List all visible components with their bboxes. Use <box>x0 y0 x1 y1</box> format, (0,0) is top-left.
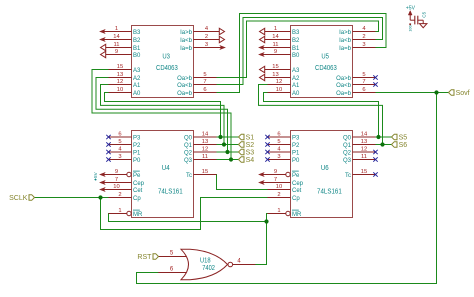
svg-text:CD4063: CD4063 <box>315 65 337 72</box>
svg-text:+5V: +5V <box>406 5 416 11</box>
svg-text:11: 11 <box>202 154 208 160</box>
svg-text:S3: S3 <box>246 149 255 156</box>
svg-text:2: 2 <box>205 34 208 40</box>
svg-text:Ia<b: Ia<b <box>339 38 352 44</box>
svg-text:RST: RST <box>137 254 152 261</box>
svg-text:10: 10 <box>276 184 282 190</box>
svg-text:S5: S5 <box>399 134 408 141</box>
svg-text:S1: S1 <box>246 134 255 141</box>
svg-text:Q2: Q2 <box>343 150 352 156</box>
svg-text:10: 10 <box>117 87 123 93</box>
svg-text:A0: A0 <box>133 91 141 97</box>
svg-text:1: 1 <box>274 26 277 32</box>
svg-text:P2: P2 <box>133 143 141 149</box>
svg-text:14: 14 <box>361 131 368 137</box>
svg-text:Oa>b: Oa>b <box>336 76 352 82</box>
svg-text:14: 14 <box>113 34 120 40</box>
svg-text:Q1: Q1 <box>343 143 352 149</box>
svg-text:13: 13 <box>361 139 367 145</box>
svg-text:9: 9 <box>115 169 118 175</box>
svg-text:P2: P2 <box>292 143 300 149</box>
svg-text:6: 6 <box>118 131 121 137</box>
svg-text:5: 5 <box>362 72 365 78</box>
svg-text:10: 10 <box>276 87 282 93</box>
svg-text:Oa=b: Oa=b <box>177 91 193 97</box>
svg-text:Q0: Q0 <box>343 135 352 141</box>
svg-text:15: 15 <box>117 64 123 70</box>
svg-text:Pe: Pe <box>133 173 141 179</box>
svg-text:Q2: Q2 <box>184 150 193 156</box>
svg-text:15: 15 <box>272 64 278 70</box>
svg-text:12: 12 <box>202 146 208 152</box>
svg-text:12: 12 <box>276 79 282 85</box>
svg-text:15: 15 <box>202 169 208 175</box>
svg-text:A2: A2 <box>292 76 300 82</box>
svg-text:15: 15 <box>361 169 367 175</box>
svg-text:B0: B0 <box>133 53 141 59</box>
svg-text:7: 7 <box>115 177 118 183</box>
svg-text:S6: S6 <box>399 142 408 149</box>
svg-text:11: 11 <box>361 154 367 160</box>
svg-text:74LS161: 74LS161 <box>158 189 183 196</box>
svg-text:11: 11 <box>113 42 119 48</box>
svg-text:U5: U5 <box>321 53 329 60</box>
svg-text:P3: P3 <box>292 135 300 141</box>
svg-text:6: 6 <box>362 87 365 93</box>
svg-text:U6: U6 <box>321 165 329 172</box>
svg-text:12: 12 <box>361 146 367 152</box>
svg-text:9: 9 <box>274 49 277 55</box>
svg-text:MR: MR <box>133 212 143 218</box>
svg-text:Oa=b: Oa=b <box>336 91 352 97</box>
svg-text:Oa<b: Oa<b <box>336 83 352 89</box>
svg-text:P0: P0 <box>133 158 141 164</box>
svg-text:1: 1 <box>277 208 280 214</box>
svg-text:3: 3 <box>277 154 280 160</box>
svg-text:Ia=b: Ia=b <box>180 46 193 52</box>
svg-text:9: 9 <box>274 169 277 175</box>
svg-text:S2: S2 <box>246 142 255 149</box>
svg-text:Oa>b: Oa>b <box>177 76 193 82</box>
svg-text:6: 6 <box>203 87 206 93</box>
svg-text:A2: A2 <box>133 76 141 82</box>
svg-text:7: 7 <box>362 79 365 85</box>
svg-text:Oa<b: Oa<b <box>177 83 193 89</box>
svg-text:Cep: Cep <box>133 181 145 187</box>
svg-text:B1: B1 <box>292 46 300 52</box>
svg-text:3: 3 <box>118 154 121 160</box>
svg-text:U3: U3 <box>162 53 170 60</box>
svg-text:13: 13 <box>202 139 208 145</box>
svg-text:A3: A3 <box>292 68 300 74</box>
svg-text:A1: A1 <box>133 83 141 89</box>
svg-text:5: 5 <box>277 139 280 145</box>
svg-text:Ia<b: Ia<b <box>180 38 193 44</box>
svg-text:Cp: Cp <box>133 196 141 202</box>
svg-text:C5: C5 <box>422 11 427 17</box>
svg-text:Tc: Tc <box>186 173 192 179</box>
svg-text:1: 1 <box>115 26 118 32</box>
svg-text:Sovf: Sovf <box>456 90 470 97</box>
svg-text:7: 7 <box>274 177 277 183</box>
svg-text:7: 7 <box>203 79 206 85</box>
svg-text:14: 14 <box>202 131 209 137</box>
svg-text:74LS161: 74LS161 <box>317 189 342 196</box>
svg-text:B2: B2 <box>292 38 300 44</box>
svg-text:7402: 7402 <box>202 265 215 272</box>
svg-text:2: 2 <box>362 34 365 40</box>
svg-text:A1: A1 <box>292 83 300 89</box>
svg-text:Q1: Q1 <box>184 143 193 149</box>
svg-text:10: 10 <box>113 184 119 190</box>
svg-text:B3: B3 <box>133 30 141 36</box>
svg-text:1: 1 <box>118 208 121 214</box>
svg-text:Cet: Cet <box>292 188 302 194</box>
svg-text:P1: P1 <box>292 150 300 156</box>
svg-text:A0: A0 <box>292 91 300 97</box>
svg-text:U18: U18 <box>200 257 211 264</box>
svg-text:3: 3 <box>205 42 208 48</box>
svg-text:14: 14 <box>272 34 279 40</box>
svg-text:12: 12 <box>117 79 123 85</box>
svg-text:B1: B1 <box>133 46 141 52</box>
svg-text:13: 13 <box>117 72 123 78</box>
svg-text:A3: A3 <box>133 68 141 74</box>
svg-text:B2: B2 <box>133 38 141 44</box>
svg-text:S4: S4 <box>246 157 255 164</box>
svg-text:MR: MR <box>292 212 302 218</box>
svg-text:B3: B3 <box>292 30 300 36</box>
svg-text:2: 2 <box>118 192 121 198</box>
svg-text:5: 5 <box>118 139 121 145</box>
svg-text:6: 6 <box>277 131 280 137</box>
svg-text:Ia=b: Ia=b <box>339 46 352 52</box>
svg-text:CD4063: CD4063 <box>156 65 178 72</box>
svg-text:Pe: Pe <box>292 173 300 179</box>
svg-text:Cp: Cp <box>292 196 300 202</box>
svg-text:5: 5 <box>203 72 206 78</box>
svg-text:Cet: Cet <box>133 188 143 194</box>
svg-text:11: 11 <box>272 42 278 48</box>
svg-text:13: 13 <box>272 72 278 78</box>
svg-text:Cep: Cep <box>292 181 304 187</box>
svg-text:P3: P3 <box>133 135 141 141</box>
svg-text:P1: P1 <box>133 150 141 156</box>
svg-text:Q3: Q3 <box>184 158 193 164</box>
svg-text:Ia>b: Ia>b <box>339 30 352 36</box>
svg-text:Q0: Q0 <box>184 135 193 141</box>
svg-text:SCLK: SCLK <box>9 195 28 202</box>
svg-text:Q3: Q3 <box>343 158 352 164</box>
svg-text:Tc: Tc <box>345 173 351 179</box>
svg-text:9: 9 <box>115 49 118 55</box>
svg-text:3: 3 <box>362 42 365 48</box>
svg-text:U4: U4 <box>162 165 170 172</box>
svg-text:2: 2 <box>277 192 280 198</box>
svg-text:B0: B0 <box>292 53 300 59</box>
svg-text:P0: P0 <box>292 158 300 164</box>
svg-text:Ia>b: Ia>b <box>180 30 193 36</box>
